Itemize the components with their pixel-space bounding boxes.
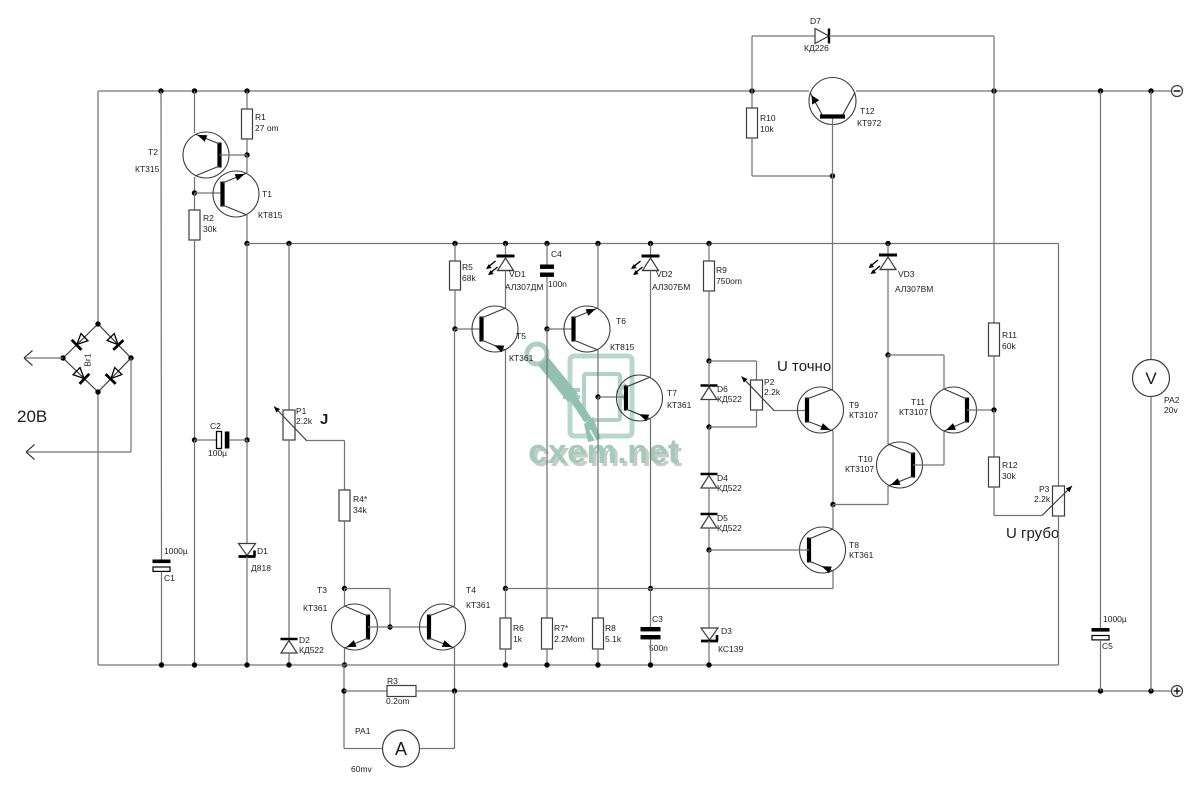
svg-text:T2: T2 — [148, 147, 158, 157]
node R3 right — [452, 688, 457, 693]
svg-text:P3: P3 — [1039, 484, 1050, 494]
wire bridge arm TR — [98, 324, 131, 358]
svg-text:1000µ: 1000µ — [1103, 614, 1127, 624]
wire C3 top lead — [650, 589, 652, 628]
svg-text:КД522: КД522 — [717, 523, 742, 533]
wire R2 to C2 — [194, 240, 196, 440]
transistor T9 — [798, 387, 844, 433]
diode D3 — [701, 628, 718, 641]
node bridge left — [60, 355, 65, 360]
capacitor C3 — [641, 627, 661, 639]
potentiometer P3 — [1042, 486, 1072, 516]
wire T5 base — [455, 328, 482, 330]
wire VD1 top lead — [505, 244, 507, 257]
wire R6 top lead — [505, 589, 507, 619]
svg-text:T1: T1 — [262, 189, 272, 199]
wire R3 left lead — [344, 690, 387, 692]
watermark cxem.net — [527, 344, 683, 474]
transistor T2 — [183, 132, 229, 178]
wire C2 right — [230, 439, 248, 441]
wire to C2 right — [246, 244, 248, 441]
svg-text:R6: R6 — [513, 623, 524, 633]
node PA2 bottom — [1148, 688, 1153, 693]
wire to D4 — [708, 427, 710, 474]
diode D5 — [701, 514, 718, 528]
wire T9 emitter lead — [832, 431, 834, 505]
svg-text:T10: T10 — [858, 454, 873, 464]
node rail D3 — [706, 662, 711, 667]
svg-text:2.2k: 2.2k — [1034, 494, 1051, 504]
wire C1 bottom lead — [161, 572, 163, 666]
wire R11 top lead — [993, 91, 995, 323]
node T3-T4 base — [387, 624, 392, 629]
potentiometer P2 — [742, 377, 775, 412]
resistor R2 — [189, 210, 200, 240]
wire T12 base lead — [832, 119, 834, 177]
svg-text:КС139: КС139 — [718, 644, 743, 654]
node T8 base tap — [706, 547, 711, 552]
svg-text:КТ815: КТ815 — [258, 210, 283, 220]
wire T10 collector lead — [887, 355, 889, 444]
node C5 top — [1098, 88, 1103, 93]
wire to D3 — [708, 550, 710, 628]
wire C5 bottom lead — [1100, 640, 1102, 691]
capacitor C4 — [540, 265, 554, 277]
resistor R9 — [704, 261, 715, 291]
svg-text:T6: T6 — [616, 316, 626, 326]
svg-text:500n: 500n — [649, 643, 668, 653]
potentiometer P1 — [274, 407, 307, 442]
wire T4 emitter lead — [454, 648, 456, 691]
wire P2 top link — [709, 360, 757, 362]
svg-text:100n: 100n — [548, 279, 567, 289]
wire R12 to P3 wiper — [994, 515, 1042, 517]
wire T2 collector lead — [194, 177, 196, 193]
wire D7 to bus — [751, 36, 753, 91]
svg-text:КТ315: КТ315 — [135, 164, 160, 174]
wire T1 emitter lead — [246, 155, 248, 173]
wire T11 collector lead — [943, 355, 945, 389]
svg-text:30k: 30k — [203, 224, 217, 234]
resistor R10 — [747, 108, 758, 138]
svg-text:D7: D7 — [810, 16, 821, 26]
svg-text:КТ3107: КТ3107 — [899, 407, 928, 417]
wire C4 to T6 base — [546, 277, 548, 329]
wire VD2 top lead — [650, 244, 652, 257]
svg-text:P1: P1 — [296, 406, 307, 416]
node mid bus R9 — [706, 241, 711, 246]
wire R2 top lead — [194, 193, 196, 210]
transistor T1 — [213, 171, 259, 217]
svg-text:T3: T3 — [317, 585, 327, 595]
wire T10 emitter link — [833, 504, 888, 506]
arrow AC lower — [26, 445, 35, 460]
svg-text:68k: 68k — [462, 273, 476, 283]
transistor T5 — [472, 306, 518, 352]
svg-text:C3: C3 — [652, 614, 663, 624]
node mid bus VD3 — [885, 241, 890, 246]
capacitor C1 — [153, 560, 171, 572]
wire C4 top lead — [546, 244, 548, 265]
wire bottom rail — [98, 664, 1059, 666]
resistor R1 — [242, 109, 253, 139]
node rail C3 — [648, 662, 653, 667]
bridge diode TL — [72, 332, 90, 350]
wire to R4 — [344, 441, 346, 491]
svg-text:J: J — [320, 411, 328, 428]
transistor T10 — [877, 442, 923, 488]
wire D7 to R11 column — [993, 36, 995, 91]
svg-text:АЛ307ДМ: АЛ307ДМ — [505, 282, 543, 292]
wire R12 bottom lead — [993, 487, 995, 516]
wire D5 bottom lead — [708, 528, 710, 550]
svg-text:D4: D4 — [717, 473, 728, 483]
node PA2 top — [1148, 88, 1153, 93]
svg-text:R7*: R7* — [554, 623, 569, 633]
node D7 cathode — [991, 88, 996, 93]
wire shunt left drop — [343, 665, 345, 749]
wire P2 bottom lead — [756, 410, 758, 427]
node R1-T2 base — [244, 152, 249, 157]
wire T12 base to T9 collector — [832, 176, 834, 389]
svg-text:КТ815: КТ815 — [610, 342, 635, 352]
wire bridge arm BL — [63, 358, 98, 392]
svg-text:КТ361: КТ361 — [466, 600, 491, 610]
svg-text:T4: T4 — [466, 585, 476, 595]
node T5 base — [452, 326, 457, 331]
svg-text:R10: R10 — [760, 113, 776, 123]
svg-text:60k: 60k — [1002, 341, 1016, 351]
svg-text:U грубо: U грубо — [1006, 525, 1059, 542]
wire VD3 top lead — [887, 244, 889, 256]
node rail R2 — [192, 662, 197, 667]
wire to R7 — [546, 329, 548, 618]
terminal plus — [1172, 686, 1183, 697]
svg-text:20В: 20В — [17, 407, 47, 426]
ammeter PA1 — [383, 730, 420, 767]
transistor T11 — [931, 387, 977, 433]
wire PA2 bottom lead — [1150, 397, 1152, 692]
node C2 right — [244, 437, 249, 442]
wire bridge bottom to rail — [97, 392, 99, 665]
diode D6 — [701, 386, 718, 400]
wire R9 top lead — [708, 244, 710, 262]
wire bridge arm BR — [98, 358, 131, 392]
svg-text:34k: 34k — [353, 505, 367, 515]
node rail R6 — [503, 662, 508, 667]
resistor R8 — [593, 618, 604, 649]
svg-text:T5: T5 — [516, 331, 526, 341]
svg-text:КТ3107: КТ3107 — [849, 410, 878, 420]
svg-text:D3: D3 — [721, 626, 732, 636]
svg-text:100µ: 100µ — [208, 448, 227, 458]
svg-text:КТ3107: КТ3107 — [845, 464, 874, 474]
wire tie horizontal — [345, 588, 391, 590]
capacitor C2 — [217, 432, 230, 449]
svg-text:R5: R5 — [462, 262, 473, 272]
wire VD2 to T7 — [650, 271, 652, 378]
wire T1 collector lead — [246, 215, 248, 244]
diode D2 — [281, 639, 298, 653]
svg-text:C1: C1 — [164, 573, 175, 583]
node mid bus VD2 — [648, 241, 653, 246]
svg-text:T8: T8 — [849, 540, 859, 550]
svg-text:2.2k: 2.2k — [296, 416, 313, 426]
wire PA1 left — [344, 748, 383, 750]
node R1 top — [244, 88, 249, 93]
node T9-T10 link — [830, 502, 835, 507]
wire T6 emitter lead — [597, 244, 599, 309]
transistor T8 — [800, 527, 846, 573]
svg-text:T7: T7 — [667, 388, 677, 398]
svg-text:R11: R11 — [1002, 330, 1017, 340]
wire R10 to T12 base — [752, 175, 833, 177]
svg-text:750om: 750om — [716, 276, 742, 286]
wire T3 collector lead — [344, 589, 346, 607]
svg-text:C2: C2 — [210, 421, 221, 431]
wire right edge upper — [1058, 244, 1060, 487]
wire top bus right — [856, 90, 1172, 92]
capacitor C5 — [1092, 628, 1110, 640]
wire T3 emitter lead — [344, 648, 346, 665]
svg-text:VD1: VD1 — [509, 269, 526, 279]
wire R8 bottom lead — [597, 649, 599, 665]
svg-text:КД522: КД522 — [717, 394, 742, 404]
transistor T6 — [564, 306, 610, 352]
node T11 base tap — [991, 407, 996, 412]
svg-text:R1: R1 — [255, 112, 266, 122]
svg-text:30k: 30k — [1002, 471, 1016, 481]
node mid bus T6 — [595, 241, 600, 246]
wire D7 left — [752, 35, 815, 37]
node mid bus C4 — [544, 241, 549, 246]
svg-text:R3: R3 — [387, 676, 398, 686]
svg-text:D5: D5 — [717, 513, 728, 523]
svg-text:КД522: КД522 — [299, 645, 324, 655]
diode D7 — [815, 29, 829, 44]
wire P1 top lead — [288, 244, 290, 411]
svg-text:PA2: PA2 — [1164, 395, 1180, 405]
wire R10 bottom lead — [751, 138, 753, 176]
wire T8 collector lead — [832, 505, 834, 530]
svg-text:КТ361: КТ361 — [509, 353, 534, 363]
transistor T4 — [420, 604, 466, 650]
wire R5 bottom lead — [454, 290, 456, 329]
wire T10 emitter lead — [887, 486, 889, 505]
node D6 bottom — [706, 424, 711, 429]
node rail R7 — [544, 662, 549, 667]
wire AC input lower — [26, 451, 131, 453]
node C5 bottom — [1098, 688, 1103, 693]
svg-text:R12: R12 — [1002, 460, 1018, 470]
svg-text:T12: T12 — [860, 106, 875, 116]
wire top bus left — [98, 90, 809, 92]
node T12 base — [830, 173, 835, 178]
wire R7 bottom lead — [546, 649, 548, 665]
node D6 top — [706, 358, 711, 363]
wire R12 top lead — [993, 410, 995, 457]
svg-text:P2: P2 — [764, 377, 775, 387]
node R10 top — [749, 88, 754, 93]
wire D6 top lead — [708, 361, 710, 386]
svg-text:КД226: КД226 — [804, 43, 829, 53]
wire to R8 — [597, 397, 599, 618]
svg-text:КД522: КД522 — [717, 483, 742, 493]
svg-text:АЛ307БМ: АЛ307БМ — [652, 282, 690, 292]
node T7 base — [595, 394, 600, 399]
wire bridge arm TL — [63, 324, 98, 358]
wire C3 bottom lead — [650, 640, 652, 666]
svg-text:1k: 1k — [513, 634, 523, 644]
wire T6 base — [547, 328, 574, 330]
diode D1 — [239, 544, 256, 557]
wire tie vertical — [389, 589, 391, 628]
svg-text:R8: R8 — [605, 623, 616, 633]
wire R4 bottom lead — [344, 521, 346, 589]
node R6 top — [503, 586, 508, 591]
wire T10 base — [913, 464, 944, 466]
node mid bus R5 — [452, 241, 457, 246]
wire to T4 collector — [454, 329, 456, 606]
svg-text:T9: T9 — [849, 400, 859, 410]
wire R11 bottom lead — [993, 356, 995, 410]
wire T7 emitter to C3 — [650, 419, 652, 589]
node rail D2 — [286, 662, 291, 667]
svg-text:VD2: VD2 — [656, 269, 673, 279]
wire to T1 base — [195, 192, 223, 194]
wire mid bus — [247, 243, 1059, 245]
wire to T11 collector — [888, 354, 944, 356]
bridge diode TR — [106, 332, 124, 350]
node bridge right — [128, 355, 133, 360]
svg-text:КТ972: КТ972 — [857, 118, 882, 128]
wire left vertical to bridge — [97, 91, 99, 324]
node bridge top — [95, 321, 100, 326]
wire T11 emitter lead — [943, 431, 945, 465]
svg-text:КТ361: КТ361 — [303, 603, 328, 613]
svg-text:5.1k: 5.1k — [605, 634, 622, 644]
wire PA2 top lead — [1150, 91, 1152, 360]
node bus left end — [244, 241, 249, 246]
LED VD1 — [486, 256, 515, 275]
wire R9 bottom lead — [708, 291, 710, 361]
node rail D1 — [244, 662, 249, 667]
wire T7 base — [598, 396, 626, 398]
svg-text:T11: T11 — [911, 397, 925, 407]
wire right edge lower — [1058, 516, 1060, 665]
LED VD2 — [631, 256, 660, 275]
svg-text:АЛ307ВМ: АЛ307ВМ — [895, 284, 933, 294]
resistor R3 — [387, 686, 416, 697]
wire D3 bottom lead — [708, 641, 710, 665]
transistor T3 — [332, 604, 378, 650]
wire VD3 to node — [887, 270, 889, 356]
resistor R6 — [500, 618, 511, 649]
wire bridge right down — [130, 358, 132, 452]
node rail R8 — [595, 662, 600, 667]
resistor R12 — [989, 457, 1000, 487]
wire T5 emitter to R6 — [505, 350, 507, 589]
svg-text:Вг1: Вг1 — [83, 353, 93, 367]
diode D4 — [701, 474, 718, 488]
wire D6 bottom lead — [708, 400, 710, 428]
svg-text:27 om: 27 om — [255, 123, 279, 133]
svg-text:10k: 10k — [760, 124, 774, 134]
resistor R11 — [989, 323, 1000, 356]
wire P2 wiper to T9 — [775, 410, 808, 412]
wire T2 emitter lead — [194, 91, 196, 133]
wire D2 bottom lead — [288, 653, 290, 665]
wire C5 top lead — [1100, 91, 1102, 628]
wire AC input upper — [24, 357, 63, 359]
wire output plus rail — [416, 690, 1172, 692]
wire P2 bottom link — [709, 426, 757, 428]
wire D7 right — [829, 35, 994, 37]
svg-text:D6: D6 — [717, 384, 728, 394]
resistor R4 — [339, 490, 350, 521]
svg-text:R2: R2 — [203, 213, 214, 223]
wire D4 to D5 — [708, 488, 710, 514]
voltmeter PA2 — [1133, 360, 1170, 397]
wire T2 base — [220, 154, 248, 156]
svg-text:20v: 20v — [1164, 405, 1178, 415]
wire C2 left to rail — [194, 440, 196, 665]
wire P2 top lead — [756, 361, 758, 380]
node rail C1 — [159, 662, 164, 667]
node bridge bottom — [95, 389, 100, 394]
resistor R7 — [542, 618, 553, 649]
wire C1 top lead — [160, 91, 163, 560]
svg-text:КТ361: КТ361 — [667, 400, 692, 410]
svg-text:КТ361: КТ361 — [849, 550, 874, 560]
wire T11 base — [967, 409, 994, 411]
bridge diode BL — [72, 366, 90, 384]
node C2 left — [192, 437, 197, 442]
svg-text:C4: C4 — [551, 249, 562, 259]
svg-text:0.2om: 0.2om — [386, 696, 410, 706]
svg-text:C5: C5 — [1102, 641, 1113, 651]
node T6 base — [544, 326, 549, 331]
svg-text:cxem.net: cxem.net — [528, 433, 679, 471]
wire T8 emitter lead — [832, 571, 834, 589]
wire T3-T4 base link — [368, 626, 429, 628]
svg-text:60mv: 60mv — [351, 764, 373, 774]
svg-text:VD3: VD3 — [898, 269, 915, 279]
svg-text:D2: D2 — [299, 635, 310, 645]
wire R1 top lead — [246, 91, 248, 109]
wire P1 wiper — [307, 440, 345, 442]
transistor T12 — [809, 78, 856, 125]
wire mirror output bus — [506, 588, 834, 590]
wire PA1 right up — [454, 691, 456, 749]
wire D1 bottom lead — [246, 557, 248, 666]
svg-text:R4*: R4* — [353, 494, 368, 504]
node mid bus VD1 — [503, 241, 508, 246]
transistor T7 — [617, 375, 663, 421]
node T1 base — [192, 190, 197, 195]
wire P1 to D2 — [288, 440, 290, 639]
node T3 emitter rail — [342, 662, 347, 667]
wire R6 bottom lead — [505, 649, 507, 665]
wire T8 base — [709, 549, 809, 551]
node T3 collector tie — [342, 586, 347, 591]
svg-text:D1: D1 — [257, 546, 268, 556]
svg-text:A: A — [395, 739, 407, 759]
wire D1 top lead — [246, 440, 248, 544]
svg-text:U точно: U точно — [777, 358, 831, 375]
bridge diode BR — [106, 366, 124, 384]
arrow AC upper — [24, 351, 33, 366]
